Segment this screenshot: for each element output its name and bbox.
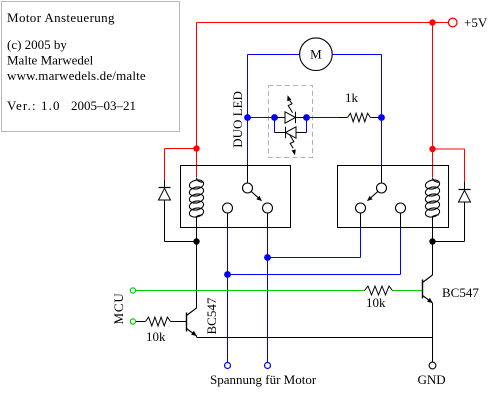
svg-text:(c) 2005 by: (c) 2005 by: [7, 37, 67, 52]
relay K2 common contact: [377, 183, 387, 193]
motor M: [300, 38, 333, 71]
wire right common drop: [381, 55, 383, 166]
diode D1 (left flyback): [159, 188, 171, 242]
wire 10k to Q2 base (green): [393, 290, 423, 292]
wire K1 NO drop: [267, 228, 269, 363]
svg-text:Spannung für Motor: Spannung für Motor: [210, 372, 317, 387]
relay K1 common stub: [247, 166, 249, 184]
svg-text:10k: 10k: [366, 295, 386, 310]
svg-text:DUO LED: DUO LED: [230, 91, 245, 148]
svg-text:Motor Ansteuerung: Motor Ansteuerung: [7, 10, 115, 25]
wire duo-led feed: [248, 117, 275, 119]
transistor Q1 BC547: [187, 308, 197, 337]
wire K1 coil to Q1 collector: [196, 242, 198, 309]
relay K1 contact stubs: [227, 213, 229, 228]
svg-text:Malte Marwedel: Malte Marwedel: [7, 53, 94, 68]
wire +5V left drop: [196, 23, 198, 178]
relay K1 box: [181, 166, 291, 228]
transistor Q2 BC547: [423, 275, 433, 303]
svg-text:+5V: +5V: [464, 15, 488, 30]
wire motor right: [332, 54, 381, 56]
wire left common drop: [247, 55, 249, 166]
relay K1 armature: [251, 192, 262, 201]
wire led bottom stubs: [274, 118, 276, 133]
svg-text:GND: GND: [418, 372, 446, 387]
wire motor left: [248, 54, 300, 56]
svg-text:MCU: MCU: [111, 292, 126, 324]
resistor 10k left: [136, 317, 187, 326]
relay K1 coil: [189, 178, 205, 242]
junction left red: [193, 145, 199, 151]
resistor 10k right: [365, 286, 393, 295]
relay K2 common stub: [381, 166, 383, 184]
LED top (right-pointing): [275, 112, 307, 123]
relay K2 contact stubs: [360, 213, 362, 228]
terminal +5V: [448, 18, 457, 27]
svg-text:10k: 10k: [146, 329, 166, 344]
ground rail: [197, 337, 433, 339]
LED bottom (left-pointing): [275, 127, 307, 138]
title text: [7, 10, 146, 113]
relay K1 contact NO: [263, 203, 273, 213]
terminal GND: [429, 362, 436, 369]
svg-text:BC547: BC547: [204, 297, 219, 334]
wire GND stub: [432, 338, 434, 363]
LED top light arrow: [287, 95, 292, 113]
wire led to 1k: [307, 117, 339, 119]
wire diode D2 to junction: [433, 241, 465, 243]
junction led right: [303, 114, 310, 121]
junction right coil/diode/collector: [429, 238, 435, 244]
svg-text:www.marwedels.de/malte: www.marwedels.de/malte: [7, 68, 146, 83]
junction +5V branch: [429, 19, 435, 25]
wire to left diode: [165, 148, 197, 150]
junction led left: [271, 114, 278, 121]
junction left coil/diode/collector: [193, 238, 199, 244]
terminal MCU lower: [130, 319, 135, 324]
wire K2 coil to Q2 collector: [432, 242, 434, 276]
relay K2 coil: [425, 178, 441, 242]
title block frame: [2, 2, 180, 132]
wire to right diode: [433, 148, 465, 150]
dashed enclosure duo led: [269, 86, 313, 158]
junction NO cross: [264, 254, 271, 261]
relay K2 contact NC: [396, 203, 406, 213]
relay K1 common contact: [243, 183, 253, 193]
relay K2 contact NO: [356, 203, 366, 213]
wire K1 NC drop: [227, 228, 229, 363]
wire +5V right drop: [432, 23, 434, 178]
junction duo-led left: [244, 114, 251, 121]
relay K1 contact NC: [223, 203, 233, 213]
junction right red: [429, 146, 435, 152]
svg-text:Ver.: 1.0: Ver.: 1.0: [7, 98, 61, 113]
svg-text:2005–03–21: 2005–03–21: [71, 98, 136, 113]
resistor 1k: [339, 113, 382, 122]
wire diode D1 to junction: [165, 241, 197, 243]
junction 1k right: [378, 114, 385, 121]
wire Q2 emitter drop: [432, 303, 434, 338]
svg-text:1k: 1k: [345, 90, 359, 105]
wire cross link lower: [228, 274, 401, 276]
terminal motor A: [225, 363, 231, 369]
terminal MCU upper: [130, 288, 135, 293]
wire +5V top rail: [197, 22, 449, 24]
svg-text:M: M: [310, 47, 322, 62]
wire MCU upper green: [136, 290, 365, 292]
LED bottom light arrow: [290, 135, 296, 156]
relay K2 box: [338, 166, 449, 228]
junction NC cross: [224, 271, 231, 278]
relay K2 armature: [367, 192, 378, 201]
svg-text:BC547: BC547: [442, 285, 479, 300]
wire cross link upper: [268, 257, 361, 259]
diode D2 (right flyback): [459, 190, 471, 242]
terminal motor B: [265, 363, 271, 369]
